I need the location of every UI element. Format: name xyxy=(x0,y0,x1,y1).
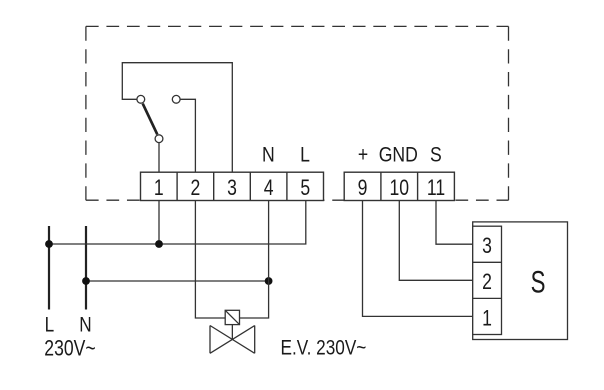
svg-text:5: 5 xyxy=(300,176,310,200)
svg-text:4: 4 xyxy=(264,176,274,200)
sensor box S xyxy=(473,222,568,340)
wire: terminal 9 to sensor 1 xyxy=(363,201,473,317)
svg-text:S: S xyxy=(531,264,546,300)
svg-text:11: 11 xyxy=(427,176,445,200)
valve body xyxy=(210,326,255,354)
wire: contact to terminal 2 xyxy=(180,99,195,172)
svg-text:3: 3 xyxy=(482,234,492,258)
svg-text:1: 1 xyxy=(154,176,164,200)
wire: terminal 11 to sensor 3 xyxy=(436,201,473,245)
contact circle (to terminal 2) xyxy=(172,95,180,103)
svg-text:S: S xyxy=(430,143,442,167)
svg-text:230V~: 230V~ xyxy=(44,337,95,361)
wire: L supply vertical xyxy=(48,226,50,310)
svg-text:3: 3 xyxy=(227,176,237,200)
svg-text:1: 1 xyxy=(482,307,492,331)
svg-text:9: 9 xyxy=(358,176,368,200)
wire: terminal 1 drop xyxy=(158,201,160,245)
svg-text:2: 2 xyxy=(191,176,201,200)
valve stem xyxy=(231,325,233,340)
wire: L line to terminals 1 and 5 xyxy=(49,201,306,245)
switch lever xyxy=(143,104,158,135)
wire: N supply vertical xyxy=(85,226,87,310)
wire: pivot to terminal 1 xyxy=(158,143,160,173)
svg-text:L: L xyxy=(45,313,55,337)
junction dot (L at terminal 1) xyxy=(155,240,163,248)
svg-text:+: + xyxy=(358,143,368,167)
contact circle (to terminal 3) xyxy=(137,95,145,103)
wire: N line to terminal 4 xyxy=(86,280,269,282)
pivot circle (to terminal 1) xyxy=(155,135,163,143)
wire: terminal 10 to sensor 2 xyxy=(399,201,472,281)
junction dot (N at terminal 4) xyxy=(265,277,273,285)
terminal block 1-5 xyxy=(141,172,324,200)
svg-text:N: N xyxy=(79,313,91,337)
junction dot (N at supply) xyxy=(82,277,90,285)
svg-text:2: 2 xyxy=(482,270,492,294)
valve coil xyxy=(225,310,239,324)
wire: switch top rail (terminal 3 to NC contact) xyxy=(122,63,232,173)
svg-text:L: L xyxy=(300,143,310,167)
terminal block 9-11 xyxy=(344,172,454,200)
svg-text:N: N xyxy=(262,143,275,167)
svg-text:E.V. 230V~: E.V. 230V~ xyxy=(281,336,367,360)
wire: terminal 4 to valve coil right xyxy=(240,201,269,319)
dashed enclosure (device outline) xyxy=(86,26,509,200)
svg-text:GND: GND xyxy=(379,143,418,167)
junction dot (L at supply) xyxy=(45,240,53,248)
sensor terminal column xyxy=(473,226,502,334)
wire: terminal 2 to valve coil left xyxy=(195,201,225,319)
svg-text:10: 10 xyxy=(390,176,410,200)
